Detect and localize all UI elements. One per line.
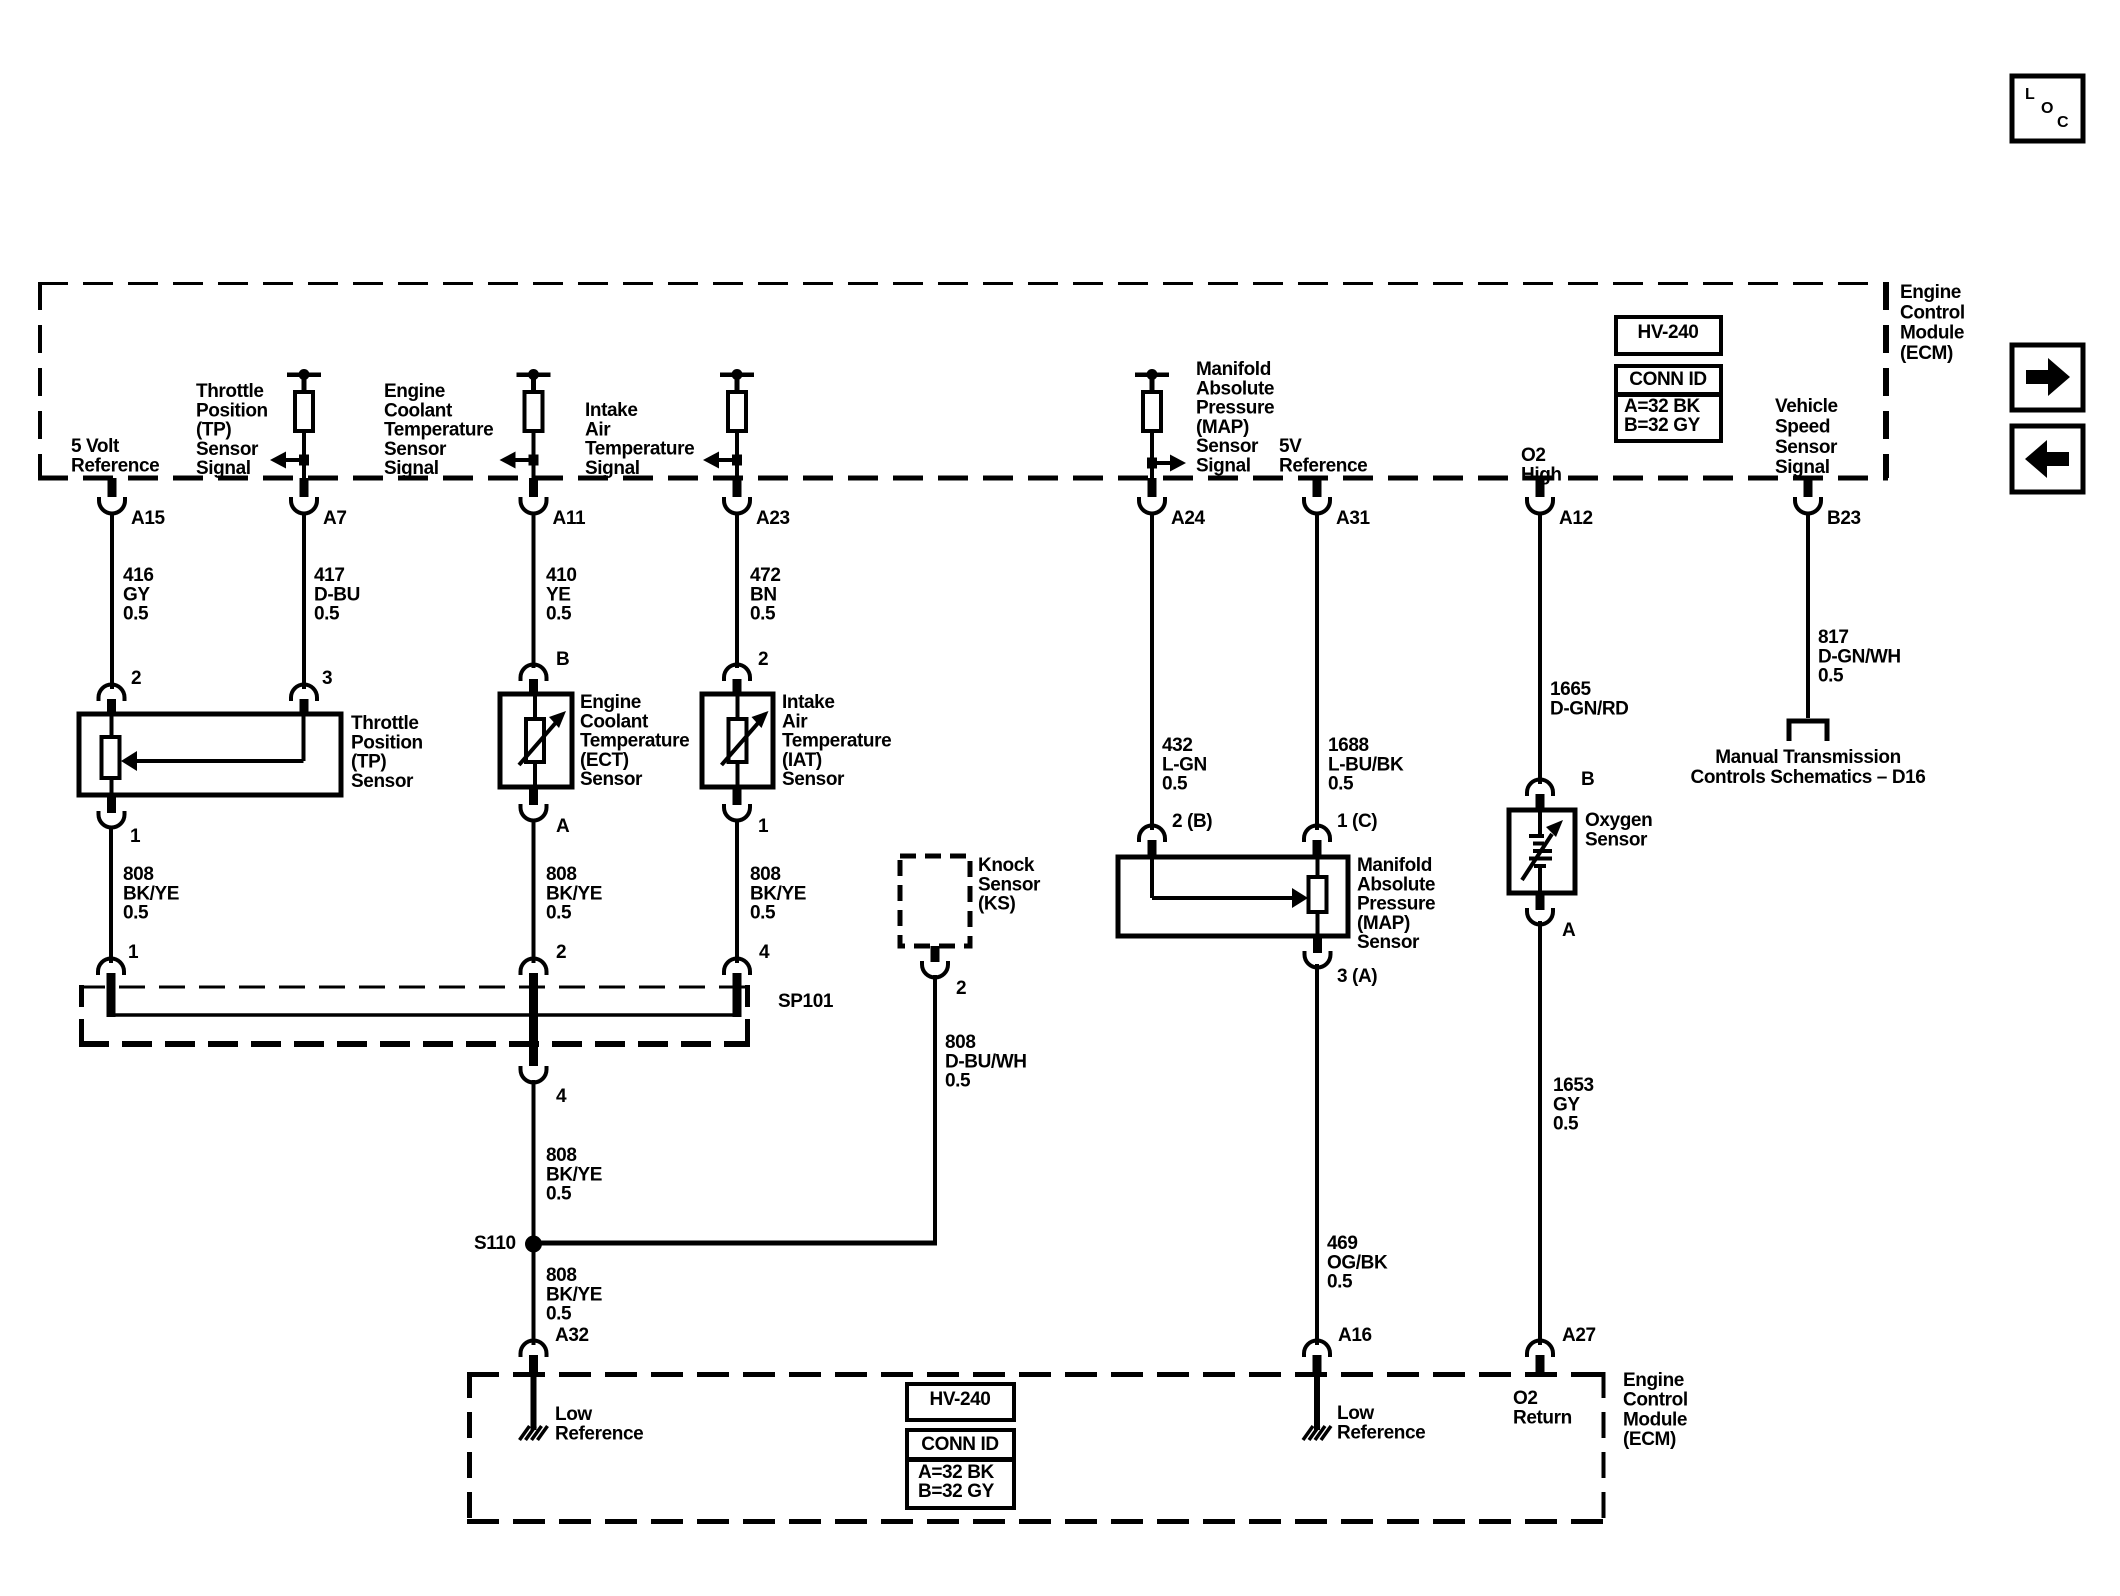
svg-text:Signal: Signal bbox=[1196, 456, 1251, 477]
ECM module dashed enclosure (bottom) - left edge bbox=[467, 1372, 472, 1524]
resistor pull-up on ECT signal (A11) bbox=[517, 369, 551, 431]
svg-text:O: O bbox=[2041, 100, 2053, 117]
ECM connector pin A31 bbox=[1304, 478, 1330, 514]
Knock Sensor dashed box bbox=[900, 856, 970, 946]
MAP potentiometer element bbox=[1309, 857, 1327, 936]
svg-text:Control: Control bbox=[1623, 1390, 1688, 1411]
svg-text:C: C bbox=[2057, 114, 2069, 131]
wire A24 resistor to ECM edge bbox=[1150, 433, 1154, 478]
svg-text:B: B bbox=[1581, 769, 1594, 790]
pin label A32 bbox=[555, 1325, 589, 1346]
svg-text:Module: Module bbox=[1900, 323, 1964, 344]
svg-text:BN: BN bbox=[750, 584, 777, 605]
wire label 1688 L-BU/BK 0.5 bbox=[1328, 735, 1404, 795]
TP sensor pin 3 connector bbox=[291, 685, 317, 716]
svg-text:Absolute: Absolute bbox=[1357, 874, 1435, 895]
svg-text:(TP): (TP) bbox=[351, 752, 386, 773]
wire label 808 D-BU/WH 0.5 bbox=[945, 1032, 1027, 1092]
ECM connector pin A16 bbox=[1304, 1341, 1330, 1377]
pin label 4 (SP101 top) bbox=[759, 942, 770, 963]
svg-text:L: L bbox=[2025, 86, 2035, 103]
svg-text:Reference: Reference bbox=[71, 455, 159, 476]
svg-text:L-GN: L-GN bbox=[1162, 754, 1207, 775]
wire label 808 BK/YE 0.5 (below S110) bbox=[546, 1265, 602, 1325]
svg-text:0.5: 0.5 bbox=[1327, 1272, 1353, 1293]
svg-text:D-BU/WH: D-BU/WH bbox=[945, 1051, 1027, 1072]
svg-text:0.5: 0.5 bbox=[546, 1304, 572, 1325]
ECT sensor box bbox=[500, 694, 572, 787]
ECT sensor pin B connector bbox=[521, 665, 547, 696]
HV-240 reference box (bottom) bbox=[907, 1384, 1014, 1420]
svg-text:Position: Position bbox=[196, 400, 268, 421]
svg-text:Absolute: Absolute bbox=[1196, 378, 1274, 399]
svg-text:Coolant: Coolant bbox=[384, 400, 453, 421]
svg-text:Position: Position bbox=[351, 732, 423, 753]
svg-text:4: 4 bbox=[759, 942, 770, 963]
svg-text:Vehicle: Vehicle bbox=[1775, 396, 1838, 417]
label Intake Air Temperature Signal bbox=[585, 400, 694, 479]
svg-text:Signal: Signal bbox=[585, 458, 640, 479]
splice S110 node bbox=[525, 1236, 542, 1253]
label O2 High bbox=[1521, 445, 1562, 485]
svg-text:0.5: 0.5 bbox=[1553, 1114, 1579, 1135]
wire label 410 YE 0.5 bbox=[546, 565, 577, 625]
svg-text:A23: A23 bbox=[756, 508, 790, 529]
pin label A15 bbox=[131, 508, 165, 529]
svg-text:Throttle: Throttle bbox=[351, 713, 419, 734]
pin label 1 (TP bottom) bbox=[130, 826, 141, 847]
svg-text:1665: 1665 bbox=[1550, 679, 1592, 700]
next-page arrow box bbox=[2012, 345, 2083, 410]
pin label 2 (KS) bbox=[956, 978, 966, 999]
svg-text:(MAP): (MAP) bbox=[1196, 417, 1249, 438]
svg-text:5V: 5V bbox=[1279, 436, 1302, 457]
off-page connector bracket (VSS to manual trans schematics) bbox=[1789, 721, 1827, 741]
svg-text:808: 808 bbox=[945, 1032, 976, 1053]
svg-text:S110: S110 bbox=[474, 1233, 516, 1254]
pin label A (O2 bottom) bbox=[1562, 920, 1576, 941]
svg-text:BK/YE: BK/YE bbox=[546, 1164, 602, 1185]
wire label 416 GY 0.5 bbox=[123, 565, 154, 625]
svg-text:0.5: 0.5 bbox=[123, 604, 149, 625]
TP sensor pin 1 connector bbox=[99, 795, 125, 828]
ECM connector pin A24 bbox=[1139, 478, 1165, 514]
pin label A11 bbox=[553, 508, 586, 529]
wire 817 D-GN/WH (B23 down) bbox=[1806, 513, 1810, 718]
wire 432 L-GN (A24 to MAP pin2B) bbox=[1150, 513, 1154, 830]
svg-text:2: 2 bbox=[758, 649, 768, 670]
ECM module dashed enclosure (bottom) - top edge bbox=[467, 1372, 1606, 1377]
svg-text:Control: Control bbox=[1900, 302, 1965, 323]
MAP wiper arrow bbox=[1152, 857, 1308, 908]
svg-text:Sensor: Sensor bbox=[782, 769, 845, 790]
MAP sensor pin 1(C) connector bbox=[1304, 826, 1330, 859]
ECM connector pin A11 bbox=[521, 478, 547, 514]
ECM connector pin A27 bbox=[1527, 1341, 1553, 1377]
CONN ID box (bottom) bbox=[907, 1430, 1014, 1508]
TP sensor pin 2 connector bbox=[99, 685, 125, 716]
svg-text:0.5: 0.5 bbox=[546, 604, 572, 625]
wire label 432 L-GN 0.5 bbox=[1162, 735, 1207, 795]
wire 1653 GY (O2 A to A27) bbox=[1538, 921, 1542, 1345]
svg-text:410: 410 bbox=[546, 565, 577, 586]
label O2 Return bbox=[1513, 1388, 1572, 1428]
label Manual Transmission Controls Schematics bbox=[1691, 747, 1926, 788]
svg-text:808: 808 bbox=[750, 864, 781, 885]
SP101 pin 2 connector bbox=[521, 959, 547, 1066]
wire 1688 L-BU/BK (A31 to MAP pin1C) bbox=[1315, 513, 1319, 830]
svg-text:1: 1 bbox=[130, 826, 141, 847]
svg-text:YE: YE bbox=[546, 584, 571, 605]
ECM module dashed enclosure (top) - left edge bbox=[38, 282, 42, 478]
svg-text:2: 2 bbox=[956, 978, 966, 999]
svg-text:Return: Return bbox=[1513, 1407, 1572, 1428]
svg-text:Pressure: Pressure bbox=[1196, 398, 1274, 419]
pin label B (O2) bbox=[1581, 769, 1594, 790]
wire 416 GY (A15 to TP pin2) bbox=[110, 513, 114, 689]
svg-text:Oxygen: Oxygen bbox=[1585, 810, 1652, 831]
wire label 808 BK/YE 0.5 (above S110) bbox=[546, 1145, 602, 1205]
wire 410 YE (A11 to ECT pinB) bbox=[532, 513, 536, 668]
svg-text:Reference: Reference bbox=[555, 1423, 643, 1444]
svg-text:4: 4 bbox=[556, 1086, 567, 1107]
wire 1665 D-GN/RD (A12 to O2 pinB) bbox=[1538, 513, 1542, 784]
svg-text:A11: A11 bbox=[553, 508, 586, 529]
svg-text:(TP): (TP) bbox=[196, 420, 231, 441]
prev-page arrow box bbox=[2012, 426, 2083, 492]
svg-text:Low: Low bbox=[1337, 1403, 1374, 1424]
svg-text:2 (B): 2 (B) bbox=[1172, 811, 1212, 832]
svg-text:HV-240: HV-240 bbox=[930, 1389, 991, 1410]
svg-text:1 (C): 1 (C) bbox=[1337, 811, 1377, 832]
wire label 469 OG/BK 0.5 bbox=[1327, 1233, 1388, 1293]
ECM connector pin A7 bbox=[291, 478, 317, 514]
svg-text:472: 472 bbox=[750, 565, 781, 586]
svg-text:GY: GY bbox=[1553, 1094, 1580, 1115]
ECT thermistor element bbox=[519, 694, 566, 787]
SP101 pin 4 connector (top) bbox=[724, 959, 750, 1017]
svg-text:D-BU: D-BU bbox=[314, 584, 360, 605]
svg-text:Reference: Reference bbox=[1337, 1422, 1425, 1443]
wire A23 resistor to ECM edge bbox=[735, 431, 739, 478]
svg-text:(IAT): (IAT) bbox=[782, 750, 822, 771]
MAP sensor box bbox=[1118, 857, 1348, 936]
wire 472 BN (A23 to IAT pin2) bbox=[735, 513, 739, 668]
wire 808 BK/YE (TP pin1 to SP101) bbox=[109, 827, 113, 963]
svg-text:B23: B23 bbox=[1827, 508, 1861, 529]
ECM module dashed enclosure (bottom) - right edge bbox=[1602, 1372, 1606, 1524]
wire A11 resistor to ECM edge bbox=[532, 431, 536, 478]
ECT sensor pin A connector bbox=[521, 787, 547, 821]
svg-text:CONN ID: CONN ID bbox=[921, 1434, 998, 1455]
svg-text:Signal: Signal bbox=[384, 458, 439, 479]
svg-text:A32: A32 bbox=[555, 1325, 589, 1346]
label Engine Coolant Temperature Sensor Signal bbox=[384, 381, 493, 479]
ECM connector pin A32 bbox=[521, 1341, 547, 1377]
pin label 2 (IAT) bbox=[758, 649, 768, 670]
svg-text:SP101: SP101 bbox=[778, 991, 834, 1012]
svg-text:Manifold: Manifold bbox=[1357, 855, 1432, 876]
pin label A (ECT bottom) bbox=[556, 816, 570, 837]
ECM module dashed enclosure (top) - bottom edge bbox=[38, 476, 1888, 481]
svg-text:A27: A27 bbox=[1562, 1325, 1596, 1346]
wire label 817 D-GN/WH 0.5 bbox=[1818, 627, 1901, 687]
svg-text:A24: A24 bbox=[1171, 508, 1205, 529]
wire 808 BK/YE (S110 to A32) bbox=[532, 1244, 536, 1345]
arrow to IAT Signal label bbox=[703, 452, 742, 469]
pin label A7 bbox=[323, 508, 347, 529]
svg-text:Controls Schematics – D16: Controls Schematics – D16 bbox=[1691, 767, 1926, 788]
IAT sensor box bbox=[702, 694, 773, 787]
svg-text:Coolant: Coolant bbox=[580, 711, 649, 732]
svg-text:Temperature: Temperature bbox=[782, 731, 891, 752]
svg-text:B=32 GY: B=32 GY bbox=[918, 1481, 995, 1502]
svg-text:416: 416 bbox=[123, 565, 154, 586]
arrow to TP Sensor Signal label bbox=[270, 452, 309, 469]
svg-text:Temperature: Temperature bbox=[580, 731, 689, 752]
svg-text:0.5: 0.5 bbox=[1328, 774, 1354, 795]
svg-text:D-GN/RD: D-GN/RD bbox=[1550, 698, 1628, 719]
svg-text:432: 432 bbox=[1162, 735, 1193, 756]
svg-text:1653: 1653 bbox=[1553, 1075, 1594, 1096]
svg-text:0.5: 0.5 bbox=[314, 604, 340, 625]
wire 808 BK/YE (SP101 to S110) bbox=[532, 1080, 536, 1244]
svg-text:B: B bbox=[556, 649, 569, 670]
svg-text:Sensor: Sensor bbox=[351, 771, 414, 792]
svg-text:Sensor: Sensor bbox=[196, 439, 259, 460]
svg-text:BK/YE: BK/YE bbox=[123, 883, 179, 904]
ground / Low Reference termination (A16) bbox=[1303, 1376, 1331, 1440]
label Engine Control Module (ECM) top right bbox=[1900, 282, 1965, 364]
pin label A23 bbox=[756, 508, 790, 529]
wire label 808 BK/YE 0.5 (mid) bbox=[546, 864, 602, 924]
svg-text:Knock: Knock bbox=[978, 855, 1035, 876]
svg-text:0.5: 0.5 bbox=[750, 903, 776, 924]
TP sensor box bbox=[79, 714, 341, 795]
IAT thermistor element bbox=[722, 694, 769, 787]
pin label A16 bbox=[1338, 1325, 1372, 1346]
svg-text:Intake: Intake bbox=[782, 692, 835, 713]
svg-text:817: 817 bbox=[1818, 627, 1849, 648]
svg-text:Reference: Reference bbox=[1279, 455, 1367, 476]
arrow to ECT Sensor Signal label bbox=[500, 452, 539, 469]
svg-text:B=32 GY: B=32 GY bbox=[1624, 415, 1701, 436]
SP101 pin 4 connector (bottom) bbox=[521, 1066, 547, 1083]
wire 808 D-BU/WH (KS to S110) bbox=[534, 975, 938, 1243]
svg-text:3: 3 bbox=[322, 668, 332, 689]
svg-text:OG/BK: OG/BK bbox=[1327, 1252, 1388, 1273]
resistor pull-up on IAT signal (A23) bbox=[720, 369, 754, 431]
svg-text:0.5: 0.5 bbox=[945, 1071, 971, 1092]
svg-text:Pressure: Pressure bbox=[1357, 894, 1435, 915]
wire label 1653 GY 0.5 bbox=[1553, 1075, 1594, 1135]
pin label A31 bbox=[1336, 508, 1370, 529]
wire label 1665 D-GN/RD bbox=[1550, 679, 1628, 719]
svg-text:Sensor: Sensor bbox=[1196, 436, 1259, 457]
wire 417 D-BU (A7 to TP pin3) bbox=[302, 513, 306, 689]
svg-text:2: 2 bbox=[556, 942, 566, 963]
pin label 4 (SP101 bottom) bbox=[556, 1086, 567, 1107]
O2 sensing element bbox=[1522, 810, 1563, 893]
label Manifold Absolute Pressure (MAP) Sensor Signal bbox=[1196, 359, 1274, 477]
svg-text:Module: Module bbox=[1623, 1409, 1687, 1430]
svg-text:Engine: Engine bbox=[1623, 1370, 1684, 1391]
pin label 1 (SP101) bbox=[128, 942, 139, 963]
svg-text:0.5: 0.5 bbox=[1162, 774, 1188, 795]
svg-text:(ECM): (ECM) bbox=[1900, 343, 1953, 364]
label Intake Air Temperature (IAT) Sensor bbox=[782, 692, 891, 790]
svg-text:A: A bbox=[556, 816, 570, 837]
svg-text:2: 2 bbox=[131, 668, 141, 689]
pin label 1 (C) bbox=[1337, 811, 1377, 832]
pin label A24 bbox=[1171, 508, 1205, 529]
svg-text:Sensor: Sensor bbox=[1585, 829, 1648, 850]
wire 808 BK/YE (ECT pinA to SP101) bbox=[532, 820, 536, 963]
svg-text:Engine: Engine bbox=[580, 692, 641, 713]
wire label 808 BK/YE 0.5 (right) bbox=[750, 864, 806, 924]
svg-text:0.5: 0.5 bbox=[546, 1184, 572, 1205]
O2 sensor box bbox=[1509, 810, 1575, 893]
svg-text:0.5: 0.5 bbox=[123, 903, 149, 924]
SP101 junction node bbox=[529, 1011, 538, 1020]
pin label 2 (B) bbox=[1172, 811, 1212, 832]
label 5 Volt Reference bbox=[71, 436, 159, 476]
IAT sensor pin 1 connector bbox=[724, 787, 750, 821]
svg-text:0.5: 0.5 bbox=[750, 604, 776, 625]
pin label 3 (A) bbox=[1337, 966, 1377, 987]
svg-text:(ECT): (ECT) bbox=[580, 750, 629, 771]
svg-text:BK/YE: BK/YE bbox=[546, 1284, 602, 1305]
svg-text:A12: A12 bbox=[1559, 508, 1593, 529]
ECM connector pin B23 bbox=[1795, 478, 1821, 514]
resistor pull-up on MAP signal (A24) bbox=[1135, 369, 1169, 431]
ground / Low Reference termination (A32) bbox=[520, 1376, 548, 1440]
svg-text:HV-240: HV-240 bbox=[1638, 322, 1699, 343]
LOC legend box bbox=[2012, 76, 2083, 141]
svg-text:1: 1 bbox=[758, 816, 769, 837]
label Engine Coolant Temperature (ECT) Sensor bbox=[580, 692, 689, 790]
svg-text:Engine: Engine bbox=[384, 381, 445, 402]
label S110 bbox=[474, 1233, 516, 1254]
svg-text:Intake: Intake bbox=[585, 400, 638, 421]
svg-text:O2: O2 bbox=[1521, 445, 1546, 466]
pin label 2 (SP101) bbox=[556, 942, 566, 963]
ECM connector pin A23 bbox=[724, 478, 750, 514]
svg-text:BK/YE: BK/YE bbox=[750, 883, 806, 904]
svg-text:Throttle: Throttle bbox=[196, 381, 264, 402]
CONN ID box (top) bbox=[1616, 366, 1721, 441]
wire A7 resistor to ECM edge bbox=[302, 431, 306, 478]
label Low Reference (left) bbox=[555, 1404, 643, 1444]
svg-text:Low: Low bbox=[555, 1404, 592, 1425]
pin label B (ECT) bbox=[556, 649, 569, 670]
svg-text:Temperature: Temperature bbox=[384, 420, 493, 441]
svg-text:A7: A7 bbox=[323, 508, 347, 529]
O2 sensor pin B connector bbox=[1527, 780, 1553, 812]
svg-text:Sensor: Sensor bbox=[978, 874, 1041, 895]
svg-text:(KS): (KS) bbox=[978, 894, 1016, 915]
label 5V Reference bbox=[1279, 436, 1367, 476]
svg-text:Speed: Speed bbox=[1775, 416, 1830, 437]
svg-text:A: A bbox=[1562, 920, 1576, 941]
label Manifold Absolute Pressure (MAP) Sensor bbox=[1357, 855, 1435, 953]
svg-text:808: 808 bbox=[546, 1265, 577, 1286]
label SP101 bbox=[778, 991, 834, 1012]
svg-text:1: 1 bbox=[128, 942, 139, 963]
svg-text:Sensor: Sensor bbox=[384, 439, 447, 460]
wire label 808 BK/YE 0.5 (left) bbox=[123, 864, 179, 924]
wire 808 BK/YE (IAT pin1 to SP101) bbox=[735, 820, 739, 963]
TP potentiometer element bbox=[102, 714, 120, 795]
svg-text:A31: A31 bbox=[1336, 508, 1370, 529]
svg-text:417: 417 bbox=[314, 565, 345, 586]
label Engine Control Module (ECM) bottom right bbox=[1623, 1370, 1688, 1450]
MAP sensor pin 2(B) connector bbox=[1139, 826, 1165, 859]
SP101 dashed box bbox=[79, 985, 750, 1046]
svg-text:BK/YE: BK/YE bbox=[546, 883, 602, 904]
svg-text:A=32 BK: A=32 BK bbox=[1624, 396, 1701, 417]
svg-text:A=32 BK: A=32 BK bbox=[918, 1462, 995, 1483]
HV-240 reference box (top) bbox=[1616, 317, 1721, 354]
MAP sensor pin 3(A) connector bbox=[1305, 936, 1331, 968]
label Throttle Position (TP) Sensor bbox=[351, 713, 423, 792]
ECM module dashed enclosure (top) - right edge bbox=[1883, 282, 1889, 478]
label Oxygen Sensor bbox=[1585, 810, 1652, 850]
svg-text:O2: O2 bbox=[1513, 1388, 1538, 1409]
KS pin 2 connector bbox=[922, 946, 948, 978]
svg-text:Signal: Signal bbox=[196, 458, 251, 479]
svg-text:Temperature: Temperature bbox=[585, 439, 694, 460]
wire 469 OG/BK (MAP 3A to A16) bbox=[1315, 964, 1319, 1345]
wire label 472 BN 0.5 bbox=[750, 565, 781, 625]
label Vehicle Speed Sensor Signal bbox=[1775, 396, 1838, 478]
label Knock Sensor (KS) bbox=[978, 855, 1041, 915]
svg-text:CONN ID: CONN ID bbox=[1629, 369, 1706, 390]
ECM module dashed enclosure (top) - top edge bbox=[38, 282, 1888, 285]
svg-text:Engine: Engine bbox=[1900, 282, 1961, 303]
resistor pull-up on TP signal (A7) bbox=[287, 369, 321, 431]
svg-text:3 (A): 3 (A) bbox=[1337, 966, 1377, 987]
ECM connector pin A15 bbox=[99, 478, 125, 514]
svg-text:GY: GY bbox=[123, 584, 150, 605]
pin label 2 (TP) bbox=[131, 668, 141, 689]
svg-text:A16: A16 bbox=[1338, 1325, 1372, 1346]
svg-text:808: 808 bbox=[546, 1145, 577, 1166]
svg-text:0.5: 0.5 bbox=[546, 903, 572, 924]
label Low Reference (right) bbox=[1337, 1403, 1425, 1443]
wire label 417 D-BU 0.5 bbox=[314, 565, 360, 625]
arrow to MAP Sensor Signal label bbox=[1147, 455, 1186, 472]
svg-text:D-GN/WH: D-GN/WH bbox=[1818, 646, 1901, 667]
svg-text:(ECM): (ECM) bbox=[1623, 1429, 1676, 1450]
svg-text:Sensor: Sensor bbox=[580, 769, 643, 790]
ECM module dashed enclosure (bottom) - bottom edge bbox=[467, 1519, 1606, 1524]
svg-text:Air: Air bbox=[585, 419, 611, 440]
svg-text:Manual Transmission: Manual Transmission bbox=[1715, 747, 1901, 768]
TP wiper arrow bbox=[121, 714, 304, 771]
pin label A27 bbox=[1562, 1325, 1596, 1346]
svg-text:Signal: Signal bbox=[1775, 457, 1830, 478]
pin label 1 (IAT bottom) bbox=[758, 816, 769, 837]
svg-text:Sensor: Sensor bbox=[1357, 932, 1420, 953]
svg-text:808: 808 bbox=[546, 864, 577, 885]
svg-text:Air: Air bbox=[782, 711, 808, 732]
ECM connector pin A12 bbox=[1527, 478, 1553, 514]
SP101 pin 1 connector bbox=[98, 959, 124, 1017]
O2 sensor pin A connector bbox=[1527, 893, 1553, 925]
pin label A12 bbox=[1559, 508, 1593, 529]
svg-text:(MAP): (MAP) bbox=[1357, 913, 1410, 934]
